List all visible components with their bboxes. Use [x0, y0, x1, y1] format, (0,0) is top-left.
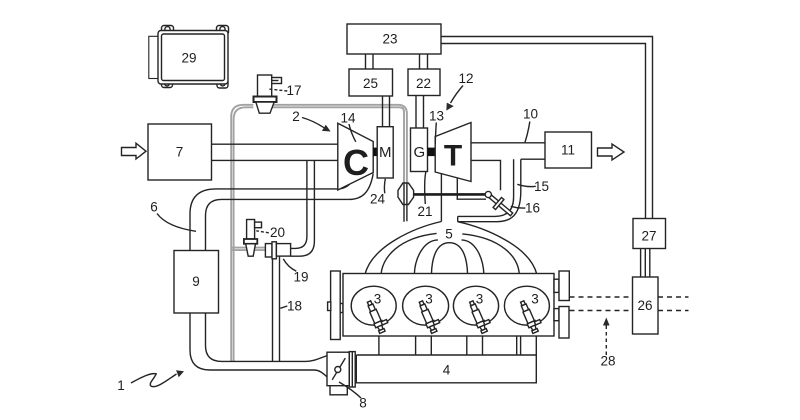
- svg-text:23: 23: [382, 32, 397, 47]
- dashed measurement lines: [570, 297, 689, 311]
- svg-text:5: 5: [445, 227, 453, 242]
- turbine outlet duct to box 11: [471, 142, 545, 144]
- wastegate seat: [456, 178, 458, 199]
- svg-text:25: 25: [363, 76, 378, 91]
- svg-text:10: 10: [523, 107, 538, 122]
- svg-text:3: 3: [425, 291, 433, 306]
- line 18 down to charge pipe: [272, 259, 274, 362]
- svg-text:3: 3: [476, 291, 484, 306]
- svg-text:T: T: [444, 140, 462, 173]
- svg-text:3: 3: [374, 291, 382, 306]
- hexagon purge control valve: [398, 183, 414, 205]
- leader to coupling 19: [283, 259, 296, 272]
- engine right tabs: [554, 279, 559, 292]
- dome runner arcs right: [462, 240, 484, 275]
- air filter box 7: [148, 124, 212, 180]
- leader to generator 21: [425, 172, 426, 204]
- inverter box 22: [408, 69, 440, 96]
- svg-text:29: 29: [181, 51, 196, 66]
- dome runner arcs left: [381, 233, 437, 274]
- gray vapour pipe from valve 17 left branch down: [231, 105, 253, 362]
- generator G 21: [411, 128, 428, 172]
- electric line 22-G: [416, 96, 424, 129]
- flap valve 16: [485, 191, 513, 215]
- purge valve 20: [244, 220, 262, 257]
- cylinder 3: [453, 286, 498, 325]
- dashed arrow 28: [605, 325, 607, 355]
- leader to flap valve 16: [511, 206, 526, 208]
- svg-text:13: 13: [429, 109, 444, 124]
- svg-text:8: 8: [359, 396, 367, 411]
- intake manifold 4: [356, 354, 536, 356]
- arrow to 2: [302, 118, 325, 129]
- svg-text:4: 4: [443, 363, 451, 378]
- dome middle arch: [431, 243, 467, 275]
- svg-text:20: 20: [270, 225, 285, 240]
- intake runner 3: [483, 336, 517, 355]
- motor M 24: [377, 127, 393, 178]
- svg-text:18: 18: [287, 299, 302, 314]
- turbine T 13: [435, 123, 471, 182]
- battery box 26: [633, 277, 659, 334]
- intake duct 7 to compressor: [212, 143, 339, 145]
- svg-text:M: M: [379, 144, 392, 161]
- actuator rod from hexagon valve: [414, 193, 486, 196]
- turbine inlet wall: [440, 173, 442, 221]
- lines inside hexagon and stub to manifold: [404, 183, 407, 222]
- svg-text:G: G: [413, 144, 425, 161]
- intake runner 2: [431, 336, 467, 355]
- leader to duct 10: [525, 122, 530, 143]
- cylinder 2: [403, 286, 449, 325]
- charge pipe from compressor outlet to cooler 9 (upper): [190, 180, 353, 251]
- svg-text:7: 7: [176, 145, 184, 160]
- svg-text:27: 27: [641, 229, 656, 244]
- leader to turbine 13: [435, 123, 436, 145]
- air inlet arrow: [122, 143, 147, 159]
- injectors: [365, 298, 390, 334]
- leader to throttle 8: [339, 382, 361, 398]
- dashed leader to purge valve 20: [256, 231, 269, 233]
- svg-text:9: 9: [192, 274, 200, 289]
- purge branch pipe into intake duct: [291, 160, 307, 248]
- svg-text:24: 24: [370, 192, 386, 207]
- svg-text:28: 28: [600, 354, 615, 369]
- vent valve 17: [254, 75, 282, 113]
- reference number labels: [117, 32, 656, 411]
- electric line 25-M: [383, 96, 390, 127]
- svg-text:15: 15: [534, 179, 549, 194]
- leader to line 18: [280, 306, 287, 308]
- svg-text:14: 14: [340, 111, 356, 126]
- svg-text:1: 1: [117, 378, 125, 393]
- squiggle arrow 1: [131, 374, 177, 387]
- shaft coupling G-T: [428, 148, 435, 157]
- engine block: [343, 274, 554, 337]
- outlet box 11: [545, 132, 592, 168]
- svg-text:22: 22: [416, 76, 431, 91]
- svg-text:21: 21: [417, 204, 432, 219]
- engine left end plate: [331, 271, 341, 340]
- gray branch pipe to coupling 19: [232, 248, 266, 251]
- svg-text:2: 2: [292, 109, 300, 124]
- exhaust collector dome 5 outer arcs: [365, 222, 441, 275]
- electric line 23 to 27: [441, 37, 653, 219]
- leader to compressor 14: [349, 124, 356, 142]
- dashed leader to vent valve 17: [269, 89, 288, 91]
- bypass pipe 15: [458, 159, 514, 216]
- leader to motor 24: [383, 179, 386, 194]
- electric line 27-26: [641, 249, 650, 278]
- electric line 23-22: [420, 54, 428, 69]
- control unit 29: [149, 26, 229, 89]
- leader to pipe 6: [157, 214, 196, 232]
- engine right end plates: [559, 271, 569, 301]
- electric line 23-25: [366, 54, 374, 69]
- inverter box 25: [349, 69, 393, 96]
- svg-text:16: 16: [525, 201, 540, 216]
- leader to bypass pipe 15: [517, 184, 536, 186]
- box 27: [633, 219, 666, 249]
- air outlet arrow: [598, 144, 625, 160]
- svg-text:17: 17: [286, 83, 301, 98]
- gray vapour pipe right branch to hexagon valve: [272, 105, 407, 183]
- svg-text:C: C: [343, 142, 369, 183]
- svg-text:6: 6: [150, 200, 158, 215]
- pipe coupling 19: [265, 242, 290, 259]
- intake runner 1: [379, 336, 416, 355]
- cylinder 4: [504, 286, 549, 325]
- compressor C 14: [338, 123, 373, 190]
- svg-text:26: 26: [637, 298, 652, 313]
- cylinder 1: [351, 286, 396, 325]
- shaft coupling C-M: [373, 148, 377, 157]
- cooler box 9: [174, 251, 219, 314]
- svg-text:12: 12: [458, 71, 473, 86]
- svg-text:3: 3: [531, 291, 539, 306]
- charge pipe from cooler 9 to throttle 8 (lower): [190, 313, 327, 377]
- intake runner 4: [520, 336, 522, 355]
- svg-text:11: 11: [561, 143, 575, 158]
- arrow to 12: [451, 86, 464, 104]
- throttle body 8: [327, 352, 355, 395]
- svg-text:19: 19: [293, 270, 308, 285]
- controller box 23: [347, 24, 441, 54]
